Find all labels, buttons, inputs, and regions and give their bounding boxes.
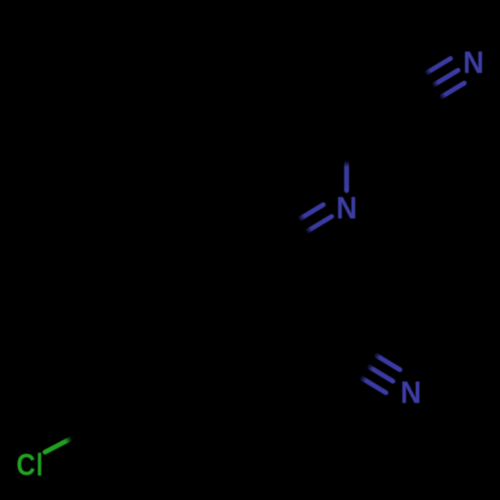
bond Cl1-C12 single bond (half near Cl, fades up-right) <box>45 438 72 452</box>
bond C5=N2 double bond main line (half near N2, fades down-left) <box>306 217 332 233</box>
atom Cl1 (chlorine, bottom left) <box>16 447 41 482</box>
bond C5=N2 double bond second line (offset upper side) <box>298 205 324 221</box>
svg-text:N: N <box>463 44 484 80</box>
bond C8#N3 triple bond line 2 (middle axis) <box>367 366 393 382</box>
bond C7#N1 triple bond line 1 (top, half near N1, fades toward C7) <box>425 59 451 75</box>
atom N3 (nitrile nitrogen, mid right) <box>400 374 421 410</box>
svg-text:N: N <box>336 190 357 226</box>
atom N1 (nitrile nitrogen, top right) <box>463 44 484 80</box>
bond C7#N1 triple bond line 2 (middle axis) <box>432 70 458 86</box>
bond N2-C6 single bond (vertical, half near N2, fades upward) <box>344 161 349 191</box>
atom N2 (imine nitrogen, centre) <box>336 190 357 226</box>
svg-text:C: C <box>16 447 35 482</box>
svg-text:N: N <box>400 374 421 410</box>
bond C7#N1 triple bond line 3 (bottom) <box>439 83 465 99</box>
bond C8#N3 triple bond line 3 (bottom, offset lower-left) <box>360 377 386 393</box>
bond C8#N3 triple bond line 1 (top, offset upper-right) <box>374 354 400 370</box>
